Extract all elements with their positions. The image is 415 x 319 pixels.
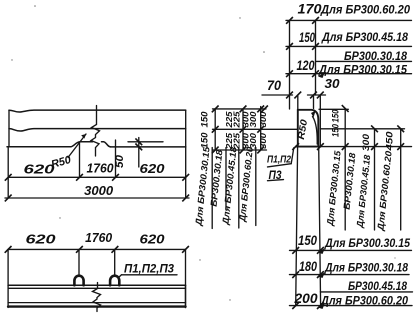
- svg-text:3000: 3000: [84, 183, 114, 198]
- svg-text:120: 120: [297, 58, 315, 73]
- R50 arrowhead: [311, 111, 316, 118]
- arrowheads at label leader starts: [318, 72, 325, 309]
- ticks bottom dim 180: [292, 271, 299, 278]
- ticks dim 70: [286, 92, 293, 99]
- svg-text:620: 620: [140, 232, 166, 247]
- svg-text:180: 180: [299, 259, 317, 274]
- svg-text:150: 150: [331, 110, 341, 123]
- right column vertical 2: [374, 129, 376, 230]
- svg-text:50: 50: [114, 154, 126, 168]
- body right vertical: [319, 147, 321, 306]
- svg-text:1760: 1760: [87, 161, 115, 176]
- ticks bottom dim 200: [292, 302, 299, 309]
- dim line 170: [286, 19, 412, 21]
- notch level right of break: [102, 141, 104, 143]
- svg-text:300: 300: [258, 133, 268, 149]
- plan bottom edge: [8, 305, 185, 307]
- lifting loop left: [74, 276, 83, 286]
- svg-text:200: 200: [293, 291, 318, 306]
- plan top edge: [8, 284, 185, 286]
- plan right edge: [185, 285, 187, 307]
- arrowhead 150 bottom line: [318, 248, 325, 254]
- extension of notch level for 50-dim: [128, 141, 163, 143]
- svg-text:Для БР300.45.18: Для БР300.45.18: [321, 32, 408, 44]
- plan dim line: [8, 248, 185, 250]
- right mid line: [320, 128, 404, 130]
- plan extension vertical at 114.9: [114, 249, 116, 276]
- ticks 50 dim: [135, 138, 142, 145]
- stem top with rounded corner: [298, 110, 319, 147]
- bottom dim line 180: [290, 274, 410, 276]
- ticks dim 30: [310, 92, 317, 99]
- svg-text:620: 620: [140, 161, 166, 176]
- svg-text:Для БР300.30.18: Для БР300.30.18: [324, 263, 408, 275]
- label underline L4: [255, 148, 257, 226]
- left column vertical 3: [260, 107, 262, 151]
- svg-text:Для БР300.60.20: Для БР300.60.20: [320, 296, 409, 308]
- extension vertical left edge to dims: [7, 147, 9, 198]
- left column vertical 1: [214, 109, 216, 150]
- svg-text:Для БР300.60.20: Для БР300.60.20: [320, 5, 411, 17]
- ticks dim 120: [286, 70, 293, 77]
- stem left edge: [297, 110, 299, 147]
- step line to right labels: [320, 146, 411, 148]
- label underline П1,П2,П3: [122, 274, 178, 276]
- arrowhead 180 bottom line: [318, 272, 325, 278]
- plan extension vertical at 79.4: [78, 249, 80, 276]
- label underline L3: [238, 148, 240, 229]
- plan extension vertical left corner: [7, 249, 9, 285]
- stem left extension above: [297, 95, 299, 110]
- plan third line: [8, 302, 185, 304]
- elevation bottom left segment: [7, 146, 71, 148]
- ticks left columns mid row: [212, 126, 219, 133]
- svg-text:П1,П2: П1,П2: [267, 155, 291, 166]
- ticks dim 150 top: [286, 43, 293, 50]
- elevation middle line: [9, 129, 186, 131]
- break line elevation: [91, 106, 100, 157]
- left columns mid line: [213, 128, 298, 130]
- ticks plan dim line: [5, 246, 12, 253]
- ticks left columns bottom row: [212, 147, 219, 154]
- left column vertical 2: [242, 109, 244, 150]
- top extension to right column: [319, 108, 348, 110]
- ticks right columns tops: [342, 105, 349, 112]
- fillet down right: [104, 142, 111, 147]
- right column vertical 1: [344, 109, 346, 231]
- svg-text:300: 300: [258, 111, 268, 127]
- fillet up R50 left: [71, 142, 81, 147]
- svg-text:БР300.45.18: БР300.45.18: [348, 281, 408, 293]
- dim line 3000: [5, 197, 189, 199]
- dim line 620/1760/620 elevation: [8, 176, 186, 178]
- ticks dim 170: [286, 17, 293, 24]
- svg-text:Для БР300.30.15: Для БР300.30.15: [318, 65, 408, 77]
- dim line 30 right segment: [308, 94, 326, 96]
- dim line 120: [286, 73, 412, 75]
- R50 leader arrow: [68, 134, 86, 158]
- svg-text:150: 150: [331, 124, 341, 137]
- svg-text:П1,П2,П3: П1,П2,П3: [124, 262, 174, 276]
- extension vertical at 115.5: [115, 140, 117, 178]
- svg-text:150: 150: [200, 133, 210, 149]
- label underline L1: [211, 148, 213, 229]
- left columns bottom line: [213, 149, 267, 151]
- label underline П1,П2: [268, 164, 292, 167]
- 50 dim vertical: [138, 138, 140, 168]
- ticks elevation dim line 620/1760/620: [5, 174, 12, 181]
- ticks bottom dim 150: [292, 247, 299, 254]
- svg-text:П3: П3: [269, 170, 283, 182]
- underline БР300.30.18 top: [316, 60, 412, 62]
- R50 leader arc inside stem: [313, 117, 318, 145]
- extension vertical at 79.5: [79, 143, 81, 178]
- notch level left of break: [80, 141, 93, 143]
- svg-text:150: 150: [299, 30, 315, 45]
- body left vertical: [296, 147, 298, 306]
- ticks right columns on step line: [342, 143, 349, 150]
- left columns top line: [213, 108, 267, 110]
- svg-text:300: 300: [248, 111, 258, 127]
- bottom dim line 200: [290, 305, 413, 307]
- ticks elevation dim line 3000: [5, 195, 12, 202]
- top dims left vertical: [289, 20, 291, 109]
- elevation bottom right segment: [111, 146, 186, 148]
- right extension vertical upper: [319, 95, 321, 147]
- label underline П3: [268, 180, 284, 181]
- svg-text:30: 30: [325, 76, 341, 91]
- plan extension vertical right corner: [185, 249, 187, 285]
- svg-text:620: 620: [26, 232, 57, 247]
- label underline L2: [225, 148, 227, 211]
- svg-text:1760: 1760: [85, 230, 113, 245]
- arrowhead 200 bottom line: [318, 303, 325, 309]
- short vertical at 313.5: [313, 95, 315, 109]
- stem bottom bold: [296, 146, 321, 148]
- elevation right edge: [185, 110, 187, 147]
- leader П1,П2,П3: [119, 275, 122, 278]
- svg-text:450: 450: [385, 132, 395, 152]
- svg-text:70: 70: [267, 78, 281, 93]
- extension vertical right edge to dims: [185, 147, 187, 198]
- leader П to stem corner: [291, 148, 294, 164]
- svg-text:БР300.30.18: БР300.30.18: [344, 51, 408, 63]
- ticks left columns top row: [261, 106, 268, 113]
- dim line 70 left segment: [262, 94, 293, 96]
- svg-text:150: 150: [200, 112, 210, 128]
- break line plan: [93, 283, 101, 312]
- svg-text:150: 150: [298, 233, 317, 248]
- dim line 150: [286, 45, 412, 47]
- svg-text:300: 300: [248, 133, 258, 149]
- arrowhead 120 line: [318, 72, 325, 78]
- plan left edge: [7, 285, 9, 307]
- elevation left edge: [8, 110, 10, 147]
- plan second line: [8, 287, 185, 289]
- svg-text:Для БР300.30.15: Для БР300.30.15: [324, 238, 410, 250]
- right column vertical 3: [400, 129, 402, 230]
- bottom dim line 150: [290, 249, 412, 251]
- lifting loop right: [110, 276, 119, 285]
- svg-text:300: 300: [361, 134, 371, 151]
- top dims right vertical: [315, 20, 317, 95]
- underline БР300.45.18 bottom: [320, 291, 412, 293]
- elevation top edge: [9, 110, 186, 112]
- svg-text:170: 170: [298, 2, 323, 17]
- ticks section bottom corners: [292, 143, 299, 150]
